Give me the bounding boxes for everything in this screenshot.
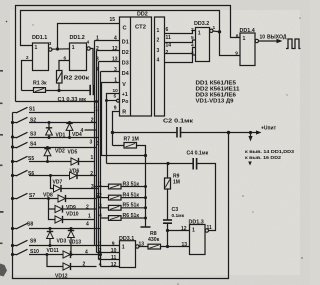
svg-text:12: 12 xyxy=(181,226,187,232)
svg-text:3: 3 xyxy=(49,41,52,46)
wire: R2 top to DD1.2 pin 6 xyxy=(59,61,70,71)
wire: R2 bottom to RC node xyxy=(58,83,60,91)
node: VD1 bottom on S3 row xyxy=(48,136,51,139)
svg-text:1M: 1M xyxy=(173,179,180,185)
wire: C3 bottom to DD1.3 pin 12 xyxy=(168,224,190,231)
diode VD1 (vertical, cathode up) xyxy=(46,123,53,138)
svg-text:C1 0.33 мк: C1 0.33 мк xyxy=(58,97,87,103)
svg-text:1: 1 xyxy=(72,45,75,51)
wire: DD1.1 pin 2 to R1 xyxy=(22,61,33,91)
svg-text:9: 9 xyxy=(112,241,115,247)
svg-text:ВЫХОД: ВЫХОД xyxy=(267,35,287,41)
svg-text:3: 3 xyxy=(96,56,99,62)
svg-text:11: 11 xyxy=(166,35,172,41)
svg-text:3: 3 xyxy=(90,139,93,145)
svg-text:2: 2 xyxy=(99,193,102,199)
svg-text:4: 4 xyxy=(99,213,102,219)
wire: R7 right to rail top xyxy=(137,146,146,156)
node: VD4 bottom on S3 row xyxy=(68,136,71,139)
svg-text:+1: +1 xyxy=(122,92,128,98)
node: VD3 bottom on S9 row xyxy=(49,244,52,247)
node: S10 on bus xyxy=(11,253,14,256)
wire: DD2 output 2 (pin 11) to DD3.2 pin 5 xyxy=(165,40,196,43)
node: junction of line1 and bus 2 xyxy=(95,100,98,103)
svg-text:DD3.2: DD3.2 xyxy=(194,21,209,27)
arrowhead down xyxy=(248,136,252,142)
svg-text:3: 3 xyxy=(191,50,194,56)
node: supply tap junction xyxy=(249,131,252,134)
wire: bus 2 into DD3.1 pin 10 xyxy=(97,252,120,254)
svg-text:S1: S1 xyxy=(29,106,35,112)
wire: R1 left to DD1.1 pin2 branch xyxy=(22,90,34,92)
svg-text:3: 3 xyxy=(99,203,102,209)
node: S6 on bus xyxy=(11,174,14,177)
wire: junction down to R8 row xyxy=(167,231,169,247)
logic gate DD1.2 (inverter) xyxy=(70,43,91,71)
diode VD8 (horizontal, cathode right) xyxy=(58,195,97,202)
wire: R8 right to DD1.3 pin 13 xyxy=(161,246,190,248)
wire: DD2 output 3 (pin 14) to DD3.2 pin 4 xyxy=(165,48,196,54)
wire: bus 1 to R3 xyxy=(95,186,109,188)
svg-text:Po: Po xyxy=(122,99,129,105)
switch S3 xyxy=(13,132,99,138)
wire: bus 4 to DD2 D4 xyxy=(101,71,120,73)
svg-text:S4: S4 xyxy=(30,142,36,148)
svg-text:4: 4 xyxy=(87,40,90,45)
node: R6 rail junction xyxy=(144,217,147,220)
svg-text:VD2: VD2 xyxy=(55,149,65,155)
wire: VD7 branch from S6 xyxy=(51,176,54,189)
svg-text:R: R xyxy=(122,110,126,116)
wire: DD2 output 1 (pin 6) to DD3.2 pin 2 xyxy=(165,31,196,34)
switch S10 xyxy=(13,249,64,255)
resistor R9 xyxy=(165,178,171,189)
svg-text:1: 1 xyxy=(99,241,102,247)
svg-text:3: 3 xyxy=(96,141,99,147)
resistor R4 xyxy=(109,195,122,200)
logic gate DD1.3 xyxy=(190,225,209,255)
svg-text:R1 3к: R1 3к xyxy=(33,81,47,87)
svg-text:10: 10 xyxy=(111,248,117,254)
node: VD7 branch junction xyxy=(49,174,52,177)
svg-text:1: 1 xyxy=(192,227,195,233)
svg-text:8: 8 xyxy=(236,33,239,39)
bus line 3 (vertical) xyxy=(98,62,100,260)
svg-text:2: 2 xyxy=(157,38,160,44)
wire: R1 right to C1 left plate xyxy=(46,90,90,92)
wire: VD10 branch xyxy=(49,209,56,220)
svg-text:6: 6 xyxy=(166,27,169,33)
svg-text:VD10: VD10 xyxy=(66,212,79,218)
wire: DD1.2 output down to C1 right plate xyxy=(90,49,93,86)
svg-text:R2 200к: R2 200к xyxy=(64,76,90,82)
wire: bus 2 to DD2 D2 xyxy=(97,50,120,52)
diode VD13 (vertical, cathode up) xyxy=(68,229,75,255)
diode VD5 (horizontal, cathode right) xyxy=(71,158,95,165)
wire: envelope line to C4 xyxy=(168,163,193,165)
switch S5 xyxy=(13,156,72,162)
svg-text:4: 4 xyxy=(85,249,88,255)
svg-text:1: 1 xyxy=(122,244,125,250)
node: S3 on bus xyxy=(11,135,14,138)
wire: bus 4 to R6 xyxy=(101,217,109,219)
svg-text:DD2: DD2 xyxy=(137,11,148,17)
svg-text:4: 4 xyxy=(96,67,99,73)
node: VD2 bottom on S5 row xyxy=(46,160,49,163)
inversion bubble on Po input xyxy=(117,99,120,102)
wire: DD3.2 output to junction xyxy=(213,30,220,33)
svg-text:S6: S6 xyxy=(28,171,34,177)
svg-text:CT2: CT2 xyxy=(135,25,146,31)
svg-text:1: 1 xyxy=(99,182,102,188)
node: VD3 top junction xyxy=(49,227,52,230)
diode VD2 (vertical, cathode up) xyxy=(44,148,51,162)
diode VD10 (horizontal, cathode right) xyxy=(55,216,95,223)
node: R4 rail junction xyxy=(144,196,147,199)
svg-text:1: 1 xyxy=(157,28,160,34)
svg-text:1: 1 xyxy=(243,36,246,42)
svg-text:0.1мк: 0.1мк xyxy=(172,213,185,219)
scan smudge bottom-left xyxy=(0,264,7,277)
svg-text:430к: 430к xyxy=(148,237,160,243)
switch S2 xyxy=(13,117,97,123)
wire: junction down to DD1.4 pin 9 xyxy=(220,32,241,56)
switch S1 xyxy=(13,107,95,113)
rail end bar xyxy=(141,226,151,228)
svg-text:14: 14 xyxy=(166,43,172,49)
counter U: DD2 K561IE11 box xyxy=(120,17,165,116)
svg-text:15: 15 xyxy=(110,17,116,23)
svg-text:9: 9 xyxy=(114,105,117,111)
node: R3 rail junction xyxy=(144,185,147,188)
svg-text:S2: S2 xyxy=(30,117,36,123)
diode VD12 (horizontal, cathode right) xyxy=(63,263,97,270)
wire: R4 to rail xyxy=(121,197,146,199)
svg-text:D4: D4 xyxy=(122,71,129,77)
node: VD4 top junction xyxy=(68,121,71,124)
svg-text:VD3: VD3 xyxy=(57,238,67,244)
svg-text:к выв. 14 DD1,DD3: к выв. 14 DD1,DD3 xyxy=(245,149,295,154)
wire: bus 2 to R4 xyxy=(97,197,109,199)
logic gate DD3.2 (4-input NOR) xyxy=(196,28,214,62)
resistor R2 xyxy=(57,71,63,84)
svg-text:VD11: VD11 xyxy=(47,248,59,254)
svg-text:DD1.1: DD1.1 xyxy=(32,35,47,41)
diode VD4 (vertical, cathode up) xyxy=(66,123,73,138)
node: right loop junction on +U xyxy=(227,131,230,134)
wire: top feedback line 1 (to DD1.4 pin 8) xyxy=(16,6,241,102)
svg-text:VD12: VD12 xyxy=(55,273,68,279)
node: pin 12 branch junction xyxy=(166,229,169,232)
logic gate DD1.4 xyxy=(240,33,259,66)
svg-text:VD7: VD7 xyxy=(53,180,63,186)
svg-text:VD6: VD6 xyxy=(70,168,80,174)
svg-text:S3: S3 xyxy=(30,132,36,138)
wire: DD1.1 output to junction and DD1.2 pin 5 xyxy=(52,48,70,50)
svg-text:2: 2 xyxy=(91,118,94,124)
svg-text:1: 1 xyxy=(91,155,94,161)
diode VD6 (horizontal, cathode right) xyxy=(70,172,97,179)
wire: +U supply line xyxy=(113,132,177,134)
node: S2 on bus xyxy=(11,121,14,124)
resistor R8 xyxy=(148,244,161,249)
svg-text:4: 4 xyxy=(86,222,89,228)
node: RC junction xyxy=(57,89,60,92)
wire: C4 right down to DD1.3 output xyxy=(197,164,216,231)
svg-text:D2: D2 xyxy=(122,50,129,56)
wire: supply tap with down arrow xyxy=(250,133,252,138)
svg-text:4: 4 xyxy=(191,43,194,49)
square wave symbol xyxy=(286,39,301,49)
wire: DD2 V pin to rail junction xyxy=(102,83,146,156)
logic gate DD3.1 (4-input NOR) xyxy=(120,241,140,268)
svg-text:2: 2 xyxy=(86,204,89,210)
svg-text:S10: S10 xyxy=(30,249,39,255)
svg-text:1: 1 xyxy=(96,35,99,41)
wire: DD2 +1 pin down to Po node and envelope line xyxy=(107,94,120,164)
switch S8 xyxy=(13,223,101,229)
svg-text:9: 9 xyxy=(235,50,238,56)
switch S9 xyxy=(13,240,120,246)
svg-text:1: 1 xyxy=(88,213,91,219)
node: VD1 top junction xyxy=(48,121,51,124)
resistor R1 xyxy=(34,88,46,93)
svg-text:10: 10 xyxy=(260,34,266,40)
svg-text:11: 11 xyxy=(207,225,213,231)
wire: DD2 Po pin to +1 vertical xyxy=(107,100,117,102)
svg-text:R7 1M: R7 1M xyxy=(124,136,139,142)
svg-text:C4 0.1мк: C4 0.1мк xyxy=(187,150,209,156)
svg-text:S7: S7 xyxy=(29,193,35,199)
node: rail top junction xyxy=(144,154,147,157)
svg-text:3: 3 xyxy=(91,184,94,190)
wire: R9 top to junction xyxy=(167,164,169,179)
wire: bus 3 to R5 xyxy=(99,207,109,209)
wire: top feedback line 2 (DD3.2 output to DD1.1 pin 1) xyxy=(21,11,220,46)
wire: R node to R7 left xyxy=(113,145,125,147)
node: VD2 top junction xyxy=(46,146,49,149)
switch S7 xyxy=(13,193,59,199)
capacitor C4 xyxy=(193,158,196,170)
svg-text:2: 2 xyxy=(96,46,99,52)
op-amp: none; logic gate DD1.1 (inverter) xyxy=(33,43,53,71)
node: Po / +1 junction xyxy=(105,99,108,102)
wire: line 1 left end joins bus at y=101.5 xyxy=(16,101,97,103)
wire: common rail vertical xyxy=(145,156,147,227)
resistor R3 xyxy=(109,184,122,189)
svg-text:1: 1 xyxy=(95,106,98,112)
svg-text:+Uпит: +Uпит xyxy=(261,126,277,132)
capacitor C3 xyxy=(163,220,172,223)
svg-text:VD1-VD13 Д9: VD1-VD13 Д9 xyxy=(196,99,234,105)
svg-text:V: V xyxy=(122,82,126,88)
wire: +U line continues to arrow xyxy=(181,132,258,134)
svg-text:2: 2 xyxy=(96,193,99,199)
wire: DD2 output 4 (pin 2) to DD3.2 pin 3 xyxy=(165,55,196,63)
node: VD9/VD10 branch junction xyxy=(47,197,50,200)
diode VD11 (horizontal, cathode right) xyxy=(63,251,101,258)
svg-text:VD5: VD5 xyxy=(68,149,78,155)
node: S7 on bus xyxy=(11,197,14,200)
svg-text:2: 2 xyxy=(83,261,86,267)
node: R pin at +U line xyxy=(111,131,114,134)
node: R5 rail junction xyxy=(144,206,147,209)
wire: DD3.1 output to R8 xyxy=(139,246,148,248)
wire: R5 to rail xyxy=(121,207,146,209)
diode VD9 (horizontal, cathode right) xyxy=(55,205,97,212)
node: S9 on bus xyxy=(11,244,14,247)
svg-text:VD13: VD13 xyxy=(69,239,82,245)
svg-text:D1: D1 xyxy=(122,40,129,46)
wire stub: bus 4 tap xyxy=(85,129,97,131)
node: VD13 bottom on S10 row xyxy=(70,253,73,256)
svg-text:5: 5 xyxy=(114,94,117,100)
wire: R9 bottom to C3 xyxy=(167,189,169,220)
node: S10 row joins bus 4 xyxy=(99,253,102,256)
resistor R7 xyxy=(124,143,137,149)
svg-text:1: 1 xyxy=(198,31,201,37)
node: junction DD1.1 out / DD2 clock xyxy=(56,47,59,50)
wire: VD9 branch xyxy=(49,199,56,210)
switch S4 xyxy=(13,142,97,148)
svg-text:к выв. 16 DD2: к выв. 16 DD2 xyxy=(245,155,282,160)
wire: DD2 R pin down to +U rail start xyxy=(113,112,120,146)
wire: VD12 branch xyxy=(47,255,63,267)
svg-text:1: 1 xyxy=(213,25,216,31)
node: R8 row junction xyxy=(166,245,169,248)
svg-text:1: 1 xyxy=(35,45,38,51)
wire: bus 3 into DD3.1 pin 11 xyxy=(99,259,120,261)
node: S5 on bus xyxy=(11,160,14,163)
node: S4 on bus xyxy=(11,145,14,148)
node: R9 top junction xyxy=(166,162,169,165)
node: VD13 top junction xyxy=(70,227,73,230)
wire: R6 to rail xyxy=(121,217,146,219)
wire: junction up and right to DD2 pin C (15) xyxy=(58,24,120,50)
svg-text:DD1.2: DD1.2 xyxy=(70,35,85,41)
svg-text:S5: S5 xyxy=(28,156,34,162)
node: VD12 branch junction xyxy=(45,253,48,256)
svg-text:VD8: VD8 xyxy=(43,192,53,198)
svg-text:2: 2 xyxy=(26,55,29,60)
wire: right feedback loop (supply to switch bus) xyxy=(13,113,229,279)
wire: envelope line from Po node to R9 top xyxy=(107,163,169,165)
svg-text:2: 2 xyxy=(191,27,194,33)
arrowhead +U xyxy=(256,130,262,134)
svg-text:4: 4 xyxy=(157,58,160,64)
svg-text:5: 5 xyxy=(191,35,194,41)
bus line 1 (vertical) xyxy=(94,41,96,246)
diode VD7 (horizontal, cathode right) xyxy=(54,185,99,192)
svg-text:2: 2 xyxy=(90,171,93,177)
wire: bus 4 into DD3.1 pin 12 xyxy=(101,266,120,268)
diode VD3 (vertical, cathode up) xyxy=(47,229,54,246)
arrowhead output xyxy=(277,39,283,43)
bus line 4 (vertical) xyxy=(100,72,102,267)
small arrow mark below xyxy=(248,162,252,166)
resistor R5 xyxy=(109,205,122,210)
capacitor C2 xyxy=(177,127,181,138)
node: S8 on bus xyxy=(11,227,14,230)
svg-text:C2 0.1мк: C2 0.1мк xyxy=(163,118,194,124)
node: junction at DD3.2 output xyxy=(218,30,221,33)
wire: DD1.4 output with arrow xyxy=(259,40,279,42)
svg-text:DD1.4: DD1.4 xyxy=(240,28,255,34)
capacitor C1 xyxy=(90,85,93,95)
resistor R6 xyxy=(109,216,122,221)
bus line 2 (vertical) xyxy=(96,51,98,253)
svg-text:C: C xyxy=(123,26,127,32)
svg-text:VD9: VD9 xyxy=(66,205,76,211)
svg-text:6: 6 xyxy=(64,56,67,61)
svg-text:S8: S8 xyxy=(27,221,33,227)
wire: bus 3 to DD2 D3 xyxy=(99,61,120,63)
svg-text:3: 3 xyxy=(157,48,160,54)
svg-text:2: 2 xyxy=(166,50,169,56)
wire: R3 to rail xyxy=(121,186,146,188)
svg-text:C3: C3 xyxy=(172,207,179,213)
svg-text:S9: S9 xyxy=(30,238,36,244)
switch S6 xyxy=(13,170,70,176)
svg-text:DD1.3: DD1.3 xyxy=(189,219,204,225)
svg-text:D3: D3 xyxy=(122,61,129,67)
svg-text:DD3.1: DD3.1 xyxy=(119,236,134,242)
wire: bus 1 to DD2 D1 xyxy=(95,40,120,42)
